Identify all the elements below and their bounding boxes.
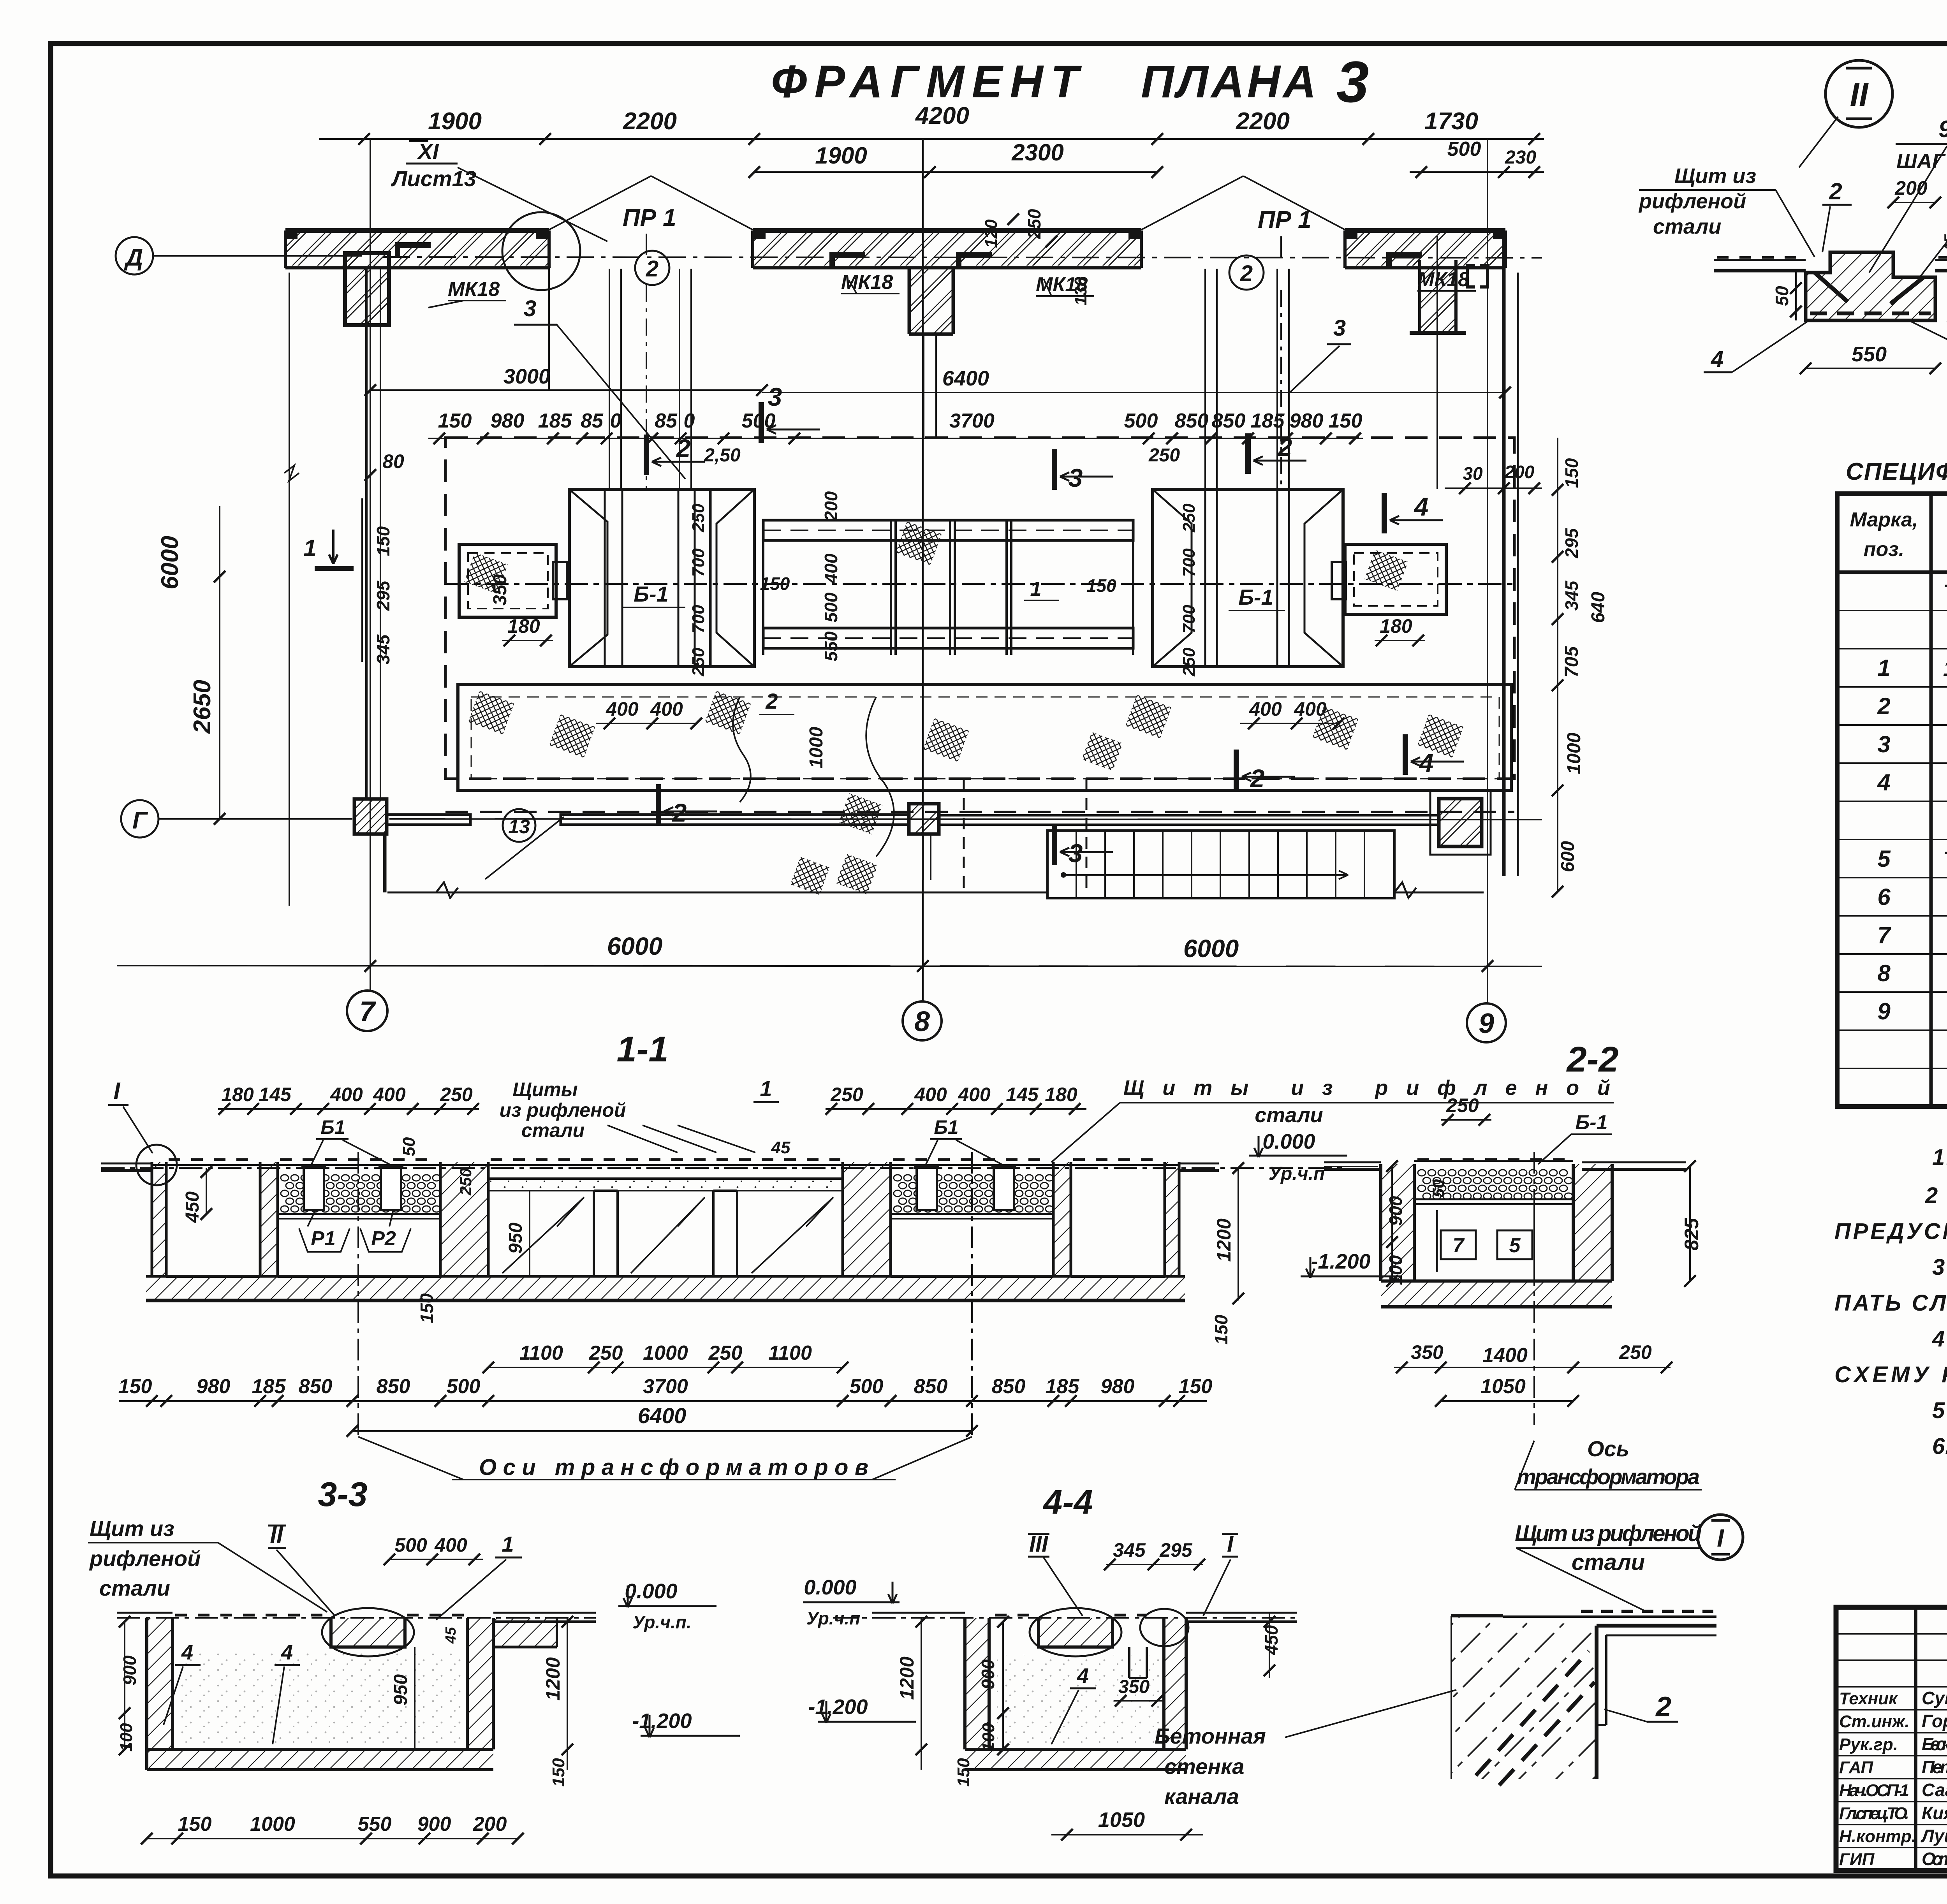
svg-text:стали: стали	[1653, 215, 1721, 238]
svg-text:Ур.ч.п: Ур.ч.п	[806, 1608, 861, 1628]
svg-text:400: 400	[434, 1534, 467, 1556]
svg-text:295: 295	[373, 580, 393, 611]
svg-text:850: 850	[377, 1375, 410, 1398]
svg-text:2: 2	[1829, 178, 1842, 204]
svg-text:250: 250	[689, 648, 708, 677]
svg-text:7: 7	[359, 996, 376, 1027]
svg-text:350: 350	[1118, 1677, 1150, 1697]
svg-text:СПЕЦИФИКАЦИЯ ЭЛЕМЕНТОВ К ФР: СПЕЦИФИКАЦИЯ ЭЛЕМЕНТОВ К ФРАГМЕНТУ ПЛЛНА	[1846, 458, 1947, 485]
svg-text:100: 100	[1385, 1255, 1406, 1285]
svg-text:ПАТЬ СЛОЕМ ГРАВИЯ ТОЛЩИНОЙ 250: ПАТЬ СЛОЕМ ГРАВИЯ ТОЛЩИНОЙ 250ММ, КРУПНО…	[1834, 1290, 1947, 1316]
svg-text:150: 150	[760, 574, 790, 594]
svg-text:400: 400	[330, 1084, 363, 1105]
svg-text:Н.контр.: Н.контр.	[1839, 1827, 1916, 1846]
svg-text:4: 4	[281, 1641, 293, 1664]
svg-text:250: 250	[830, 1084, 863, 1105]
svg-text:Марка,: Марка,	[1850, 509, 1918, 531]
svg-text:350: 350	[1411, 1341, 1444, 1363]
svg-text:2: 2	[1877, 693, 1890, 719]
svg-text:350: 350	[490, 574, 511, 605]
svg-text:0: 0	[610, 410, 621, 432]
svg-text:8: 8	[1877, 960, 1891, 986]
svg-text:Щиты: Щиты	[512, 1079, 577, 1100]
svg-text:ТП904-1- -КЖИ-Б1: ТП904-1- -КЖИ-Б1	[1943, 580, 1947, 604]
svg-text:400: 400	[821, 553, 841, 584]
svg-text:45: 45	[771, 1138, 790, 1157]
svg-text:4: 4	[181, 1641, 193, 1664]
svg-text:250: 250	[1024, 209, 1044, 239]
svg-text:ГИП: ГИП	[1839, 1850, 1875, 1869]
svg-text:-1.200: -1.200	[1311, 1250, 1370, 1273]
svg-text:450: 450	[182, 1191, 203, 1223]
svg-text:250: 250	[1446, 1095, 1479, 1116]
svg-text:150: 150	[118, 1375, 152, 1398]
svg-text:345: 345	[1113, 1539, 1146, 1561]
svg-text:Ур.ч.п.: Ур.ч.п.	[632, 1612, 691, 1632]
svg-text:2200: 2200	[623, 108, 677, 135]
svg-text:стали: стали	[1255, 1103, 1323, 1127]
svg-text:150: 150	[1086, 575, 1116, 596]
svg-text:150: 150	[1179, 1375, 1213, 1398]
svg-text:3700: 3700	[949, 410, 995, 432]
svg-text:3700: 3700	[643, 1375, 688, 1398]
svg-text:I: I	[114, 1078, 121, 1104]
svg-text:Бескоровайный: Бескоровайный	[1922, 1734, 1947, 1754]
svg-text:180: 180	[1045, 1084, 1077, 1105]
svg-text:0.000: 0.000	[1262, 1130, 1315, 1153]
svg-text:поз.: поз.	[1864, 538, 1905, 561]
svg-text:1400: 1400	[1482, 1344, 1528, 1367]
svg-text:рифленой: рифленой	[89, 1546, 201, 1571]
svg-text:13: 13	[508, 816, 530, 838]
svg-text:150: 150	[1329, 410, 1363, 432]
svg-text:3: 3	[1069, 839, 1083, 868]
svg-text:5: 5	[1877, 846, 1891, 872]
svg-text:МК18: МК18	[1036, 273, 1088, 296]
svg-text:Щит из: Щит из	[1674, 164, 1756, 188]
svg-text:8: 8	[914, 1006, 930, 1037]
svg-text:500: 500	[394, 1534, 427, 1556]
svg-text:Кияшко: Кияшко	[1922, 1803, 1947, 1823]
svg-text:2200: 2200	[1236, 108, 1290, 135]
svg-text:Нач.ОСП-1: Нач.ОСП-1	[1839, 1781, 1909, 1800]
svg-text:850: 850	[299, 1375, 333, 1398]
svg-text:2650: 2650	[189, 680, 216, 734]
svg-text:Петровский: Петровский	[1922, 1757, 1947, 1777]
svg-text:2: 2	[672, 798, 687, 827]
svg-text:Бетонная: Бетонная	[1155, 1724, 1266, 1748]
svg-text:9: 9	[1877, 998, 1891, 1024]
svg-text:-1.200: -1.200	[808, 1695, 868, 1719]
svg-text:1-1: 1-1	[617, 1029, 669, 1069]
svg-text:1050: 1050	[1480, 1375, 1526, 1398]
svg-text:Оси трансформаторов: Оси трансформаторов	[479, 1455, 868, 1480]
svg-text:7: 7	[1453, 1234, 1465, 1257]
svg-text:Р2: Р2	[371, 1227, 396, 1250]
svg-text:1730: 1730	[1424, 108, 1478, 135]
svg-text:Суман: Суман	[1922, 1688, 1947, 1708]
svg-text:150: 150	[438, 410, 472, 432]
svg-text:550: 550	[821, 631, 841, 661]
svg-text:150: 150	[1211, 1314, 1231, 1344]
svg-text:45: 45	[443, 1627, 459, 1644]
svg-text:6. ПЕРЕМЫЧКИ ПР1 УЧТЕНЫ В СПЕ: 6. ПЕРЕМЫЧКИ ПР1 УЧТЕНЫ В СПЕЦИФИКАЦИИ Н…	[1932, 1434, 1947, 1459]
svg-text:400: 400	[1294, 698, 1327, 720]
svg-text:250: 250	[1148, 445, 1180, 466]
svg-text:50: 50	[1772, 286, 1792, 306]
svg-text:канала: канала	[1164, 1784, 1239, 1809]
svg-text:Горская: Горская	[1922, 1711, 1947, 1731]
svg-text:Техник: Техник	[1839, 1689, 1898, 1708]
svg-text:825: 825	[1681, 1218, 1702, 1251]
svg-text:5. МК18 УЧТЕНЫ В СПЕЦИФИКАЦИИ: 5. МК18 УЧТЕНЫ В СПЕЦИФИКАЦИИ НА ЛИСТЕ 1…	[1932, 1398, 1947, 1423]
svg-text:6000: 6000	[1183, 934, 1239, 963]
svg-text:150: 150	[417, 1293, 437, 1323]
svg-text:Щиты из рифленой: Щиты из рифленой	[1123, 1076, 1610, 1100]
svg-text:рифленой: рифленой	[1638, 190, 1746, 213]
svg-text:250: 250	[1619, 1341, 1652, 1363]
svg-text:180: 180	[1380, 615, 1412, 637]
svg-text:1900: 1900	[815, 143, 867, 169]
svg-text:4. КАНАЛ ПЕРЕКРЫТЬ ЩИТАМИ ИЗ: 4. КАНАЛ ПЕРЕКРЫТЬ ЩИТАМИ ИЗ РИФЛЕНОЙ СТ…	[1932, 1326, 1947, 1351]
svg-text:9: 9	[1479, 1008, 1494, 1039]
svg-text:400: 400	[1249, 698, 1282, 720]
svg-text:2: 2	[1250, 764, 1265, 793]
svg-text:стенка: стенка	[1164, 1754, 1244, 1779]
svg-text:3: 3	[768, 382, 782, 411]
svg-text:Луценко: Луценко	[1921, 1826, 1947, 1846]
svg-text:980: 980	[1101, 1375, 1135, 1398]
svg-text:6400: 6400	[638, 1403, 687, 1428]
svg-text:900: 900	[120, 1655, 140, 1685]
svg-text:2: 2	[646, 256, 658, 282]
svg-text:345: 345	[1561, 580, 1582, 611]
svg-text:185: 185	[538, 410, 572, 432]
svg-text:Щит из: Щит из	[90, 1516, 174, 1541]
svg-text:5: 5	[1509, 1234, 1521, 1257]
svg-text:1100: 1100	[519, 1342, 563, 1364]
svg-text:1000: 1000	[806, 727, 827, 768]
svg-text:4-4: 4-4	[1042, 1483, 1093, 1521]
svg-text:1: 1	[1877, 655, 1890, 681]
svg-text:200: 200	[1504, 462, 1535, 482]
svg-text:700: 700	[1179, 548, 1199, 577]
svg-text:-1.200: -1.200	[632, 1709, 692, 1733]
svg-text:ФРАГМЕНТ: ФРАГМЕНТ	[771, 56, 1082, 107]
svg-text:705: 705	[1561, 646, 1582, 677]
svg-text:250: 250	[708, 1342, 743, 1364]
svg-text:3: 3	[524, 296, 536, 321]
svg-text:50: 50	[400, 1137, 419, 1156]
svg-text:850: 850	[914, 1375, 948, 1398]
svg-text:700: 700	[689, 605, 708, 633]
svg-text:2-2: 2-2	[1566, 1040, 1619, 1079]
svg-text:1200: 1200	[542, 1657, 564, 1700]
svg-text:950: 950	[505, 1223, 526, 1254]
svg-text:500: 500	[1447, 138, 1481, 160]
svg-text:1: 1	[760, 1076, 772, 1101]
svg-text:85: 85	[581, 410, 604, 432]
svg-text:1.400-15.В1. 550-04: 1.400-15.В1. 550-04	[1943, 656, 1947, 681]
svg-text:200: 200	[1894, 177, 1928, 199]
svg-text:2: 2	[1655, 1691, 1671, 1723]
svg-text:МК18: МК18	[841, 271, 893, 294]
svg-text:850: 850	[992, 1375, 1026, 1398]
svg-text:250: 250	[589, 1342, 623, 1364]
svg-text:850: 850	[1175, 410, 1209, 432]
svg-text:1200: 1200	[896, 1656, 918, 1700]
svg-text:2: 2	[765, 689, 778, 713]
svg-text:1050: 1050	[1098, 1808, 1145, 1832]
svg-text:500: 500	[447, 1375, 481, 1398]
svg-text:250: 250	[456, 1168, 475, 1196]
svg-text:3000: 3000	[503, 365, 550, 388]
svg-text:150: 150	[373, 526, 393, 556]
svg-text:из рифленой: из рифленой	[500, 1099, 626, 1121]
svg-text:450: 450	[1261, 1625, 1282, 1655]
svg-text:700: 700	[1179, 605, 1199, 633]
svg-text:ТП904-1- -КЖИ-Р1,Р2: ТП904-1- -КЖИ-Р1,Р2	[1943, 847, 1947, 871]
svg-text:80: 80	[382, 450, 404, 472]
svg-text:1000: 1000	[1564, 732, 1584, 774]
svg-text:250: 250	[1179, 648, 1199, 677]
svg-text:СХЕМУ РАСКЛАДКИ ЩИТОВ СМ НА ЛИ: СХЕМУ РАСКЛАДКИ ЩИТОВ СМ НА ЛИСТЕ ТП904-…	[1834, 1362, 1947, 1387]
svg-text:230: 230	[1505, 147, 1536, 168]
svg-text:400: 400	[606, 698, 639, 720]
svg-text:250: 250	[689, 503, 708, 533]
svg-text:120: 120	[982, 219, 1001, 248]
svg-text:Г: Г	[132, 807, 148, 834]
svg-text:4: 4	[1414, 492, 1429, 521]
svg-text:250: 250	[1179, 503, 1199, 533]
svg-text:3. СТАЛЬНЫЕ РЕШЕТКИ В МАСЛОСБО: 3. СТАЛЬНЫЕ РЕШЕТКИ В МАСЛОСБОРНЫХ ЯМАХ …	[1932, 1255, 1947, 1280]
svg-text:4: 4	[1419, 748, 1434, 777]
svg-text:6400: 6400	[942, 367, 989, 390]
svg-text:II: II	[1850, 76, 1869, 113]
svg-text:150: 150	[549, 1758, 568, 1787]
svg-text:ПЛАНА: ПЛАНА	[1141, 56, 1316, 107]
svg-text:200: 200	[473, 1813, 507, 1835]
svg-text:3: 3	[1333, 315, 1346, 341]
svg-text:3: 3	[1877, 731, 1890, 757]
svg-text:трансформатора: трансформатора	[1517, 1464, 1700, 1489]
svg-text:4: 4	[1877, 769, 1890, 795]
svg-text:Щит из рифленой: Щит из рифленой	[1515, 1521, 1702, 1546]
svg-text:9: 9	[1938, 116, 1947, 142]
svg-text:стали: стали	[99, 1576, 170, 1600]
svg-text:Б-1: Б-1	[1575, 1111, 1607, 1134]
svg-text:Р1: Р1	[311, 1227, 336, 1250]
svg-text:700: 700	[689, 548, 708, 577]
svg-text:0: 0	[684, 410, 695, 432]
svg-text:2 ПРИ БЕТОНИРОВАНИИ СТЕНОК ПРИ: 2 ПРИ БЕТОНИРОВАНИИ СТЕНОК ПРИЯМКОВ И КА…	[1925, 1183, 1947, 1208]
svg-text:850: 850	[1212, 410, 1246, 432]
svg-text:7: 7	[1877, 922, 1891, 948]
svg-text:400: 400	[914, 1084, 947, 1105]
svg-text:ПР 1: ПР 1	[623, 204, 676, 231]
svg-text:I: I	[1227, 1531, 1234, 1557]
svg-text:150: 150	[1561, 458, 1582, 488]
svg-text:185: 185	[252, 1375, 286, 1398]
svg-text:1. КАНАЛ И ПРИЯМКИ ВЫПОЛНИТЬ И: 1. КАНАЛ И ПРИЯМКИ ВЫПОЛНИТЬ ИЗ БЕТОНА М…	[1932, 1145, 1947, 1170]
svg-text:400: 400	[373, 1084, 406, 1105]
svg-text:Осташевский: Осташевский	[1922, 1849, 1947, 1869]
svg-text:МК18: МК18	[1417, 268, 1469, 291]
svg-text:1: 1	[303, 535, 316, 561]
svg-text:ШАГ 200: ШАГ 200	[1896, 150, 1947, 173]
svg-text:500: 500	[850, 1375, 884, 1398]
svg-text:250: 250	[440, 1084, 473, 1105]
svg-text:Ур.ч.п: Ур.ч.п	[1269, 1163, 1325, 1184]
svg-text:30: 30	[1463, 463, 1483, 484]
svg-text:1900: 1900	[428, 108, 482, 135]
svg-text:0.000: 0.000	[625, 1580, 677, 1603]
svg-text:2: 2	[1240, 261, 1253, 286]
svg-text:6000: 6000	[607, 932, 662, 960]
svg-text:980: 980	[1290, 410, 1324, 432]
svg-text:Рук.гр.: Рук.гр.	[1839, 1735, 1898, 1754]
svg-text:295: 295	[1159, 1539, 1193, 1561]
svg-text:Б-1: Б-1	[634, 582, 668, 606]
svg-text:3: 3	[1069, 463, 1083, 492]
svg-text:150: 150	[954, 1758, 973, 1787]
svg-text:500: 500	[821, 592, 841, 622]
svg-text:185: 185	[1251, 410, 1285, 432]
svg-text:600: 600	[1558, 841, 1578, 872]
svg-text:145: 145	[259, 1084, 292, 1105]
svg-text:3-3: 3-3	[318, 1475, 367, 1513]
svg-text:1000: 1000	[643, 1342, 688, 1364]
svg-text:1200: 1200	[1213, 1218, 1235, 1262]
svg-text:550: 550	[1852, 343, 1887, 366]
svg-text:500: 500	[1124, 410, 1158, 432]
svg-text:900: 900	[978, 1659, 998, 1689]
svg-text:III: III	[1029, 1531, 1049, 1557]
svg-text:ПР 1: ПР 1	[1258, 206, 1311, 233]
svg-text:XI: XI	[417, 139, 439, 164]
svg-text:640: 640	[1588, 592, 1609, 623]
svg-text:345: 345	[373, 634, 393, 664]
svg-text:Ось: Ось	[1587, 1436, 1629, 1461]
svg-text:стали: стали	[521, 1119, 584, 1141]
svg-text:180: 180	[507, 615, 540, 637]
svg-text:980: 980	[491, 410, 525, 432]
svg-text:ГАП: ГАП	[1839, 1758, 1873, 1777]
svg-text:ПРЕДУСМОТРЕТЬ УСТАНОВКУ ЗАКЛАД: ПРЕДУСМОТРЕТЬ УСТАНОВКУ ЗАКЛАДНЫХ ЭЛЕМЕН…	[1834, 1219, 1947, 1244]
svg-text:180: 180	[221, 1084, 254, 1105]
svg-text:1: 1	[502, 1532, 514, 1556]
svg-text:150: 150	[178, 1813, 212, 1835]
svg-text:550: 550	[358, 1813, 392, 1835]
svg-text:200: 200	[821, 491, 841, 521]
svg-text:МК18: МК18	[448, 278, 500, 301]
svg-text:1000: 1000	[250, 1813, 295, 1835]
svg-text:85: 85	[655, 410, 678, 432]
svg-text:145: 145	[1006, 1084, 1039, 1105]
svg-text:295: 295	[1561, 528, 1582, 558]
svg-text:стали: стали	[1572, 1550, 1645, 1575]
svg-text:50: 50	[1429, 1179, 1447, 1198]
svg-text:400: 400	[958, 1084, 991, 1105]
svg-text:6000: 6000	[157, 536, 183, 590]
svg-text:100: 100	[979, 1723, 998, 1752]
svg-text:4: 4	[1077, 1664, 1089, 1688]
svg-text:2,50: 2,50	[704, 445, 741, 466]
svg-text:Б1: Б1	[320, 1116, 345, 1138]
svg-text:Саакьянц: Саакьянц	[1922, 1780, 1947, 1800]
svg-text:Д: Д	[124, 244, 143, 271]
svg-text:Б1: Б1	[934, 1116, 958, 1138]
svg-text:900: 900	[417, 1813, 451, 1835]
svg-text:3: 3	[1336, 49, 1369, 114]
svg-text:2300: 2300	[1011, 139, 1063, 165]
svg-text:950: 950	[391, 1674, 411, 1705]
svg-text:980: 980	[197, 1375, 231, 1398]
svg-text:45: 45	[1941, 234, 1947, 253]
svg-text:4200: 4200	[915, 102, 969, 129]
svg-text:Ст.инж.: Ст.инж.	[1839, 1712, 1910, 1731]
svg-text:4: 4	[1711, 347, 1723, 372]
svg-text:Гл.спец.ТО.: Гл.спец.ТО.	[1839, 1804, 1909, 1823]
svg-text:185: 185	[1046, 1375, 1080, 1398]
svg-text:I: I	[1717, 1524, 1724, 1552]
svg-text:1100: 1100	[768, 1342, 812, 1364]
svg-text:0.000: 0.000	[804, 1576, 856, 1599]
svg-text:1: 1	[1030, 578, 1042, 600]
svg-text:Б-1: Б-1	[1238, 585, 1273, 609]
svg-text:400: 400	[650, 698, 683, 720]
svg-text:900: 900	[1385, 1196, 1406, 1226]
svg-text:6: 6	[1877, 884, 1891, 910]
